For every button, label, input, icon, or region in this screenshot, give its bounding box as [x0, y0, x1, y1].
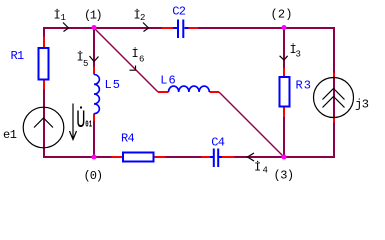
node 2 junction dot [282, 25, 287, 30]
voltage arrow U01 [70, 104, 77, 140]
wire C2 right lead [189, 27, 199, 29]
wire bottom bus left [43, 156, 112, 158]
current arrow I4 head [248, 153, 255, 161]
svg-text:5: 5 [83, 59, 88, 69]
label I2 [134, 8, 146, 23]
svg-text:(3): (3) [274, 169, 294, 183]
wire R3 bottom lead [283, 107, 285, 118]
source e1 circle [23, 107, 64, 148]
svg-text:(2): (2) [271, 8, 293, 22]
wire R3 top lead [283, 68, 285, 77]
inductor L6 [169, 86, 210, 92]
svg-text:(1): (1) [84, 9, 101, 23]
svg-text:İ: İ [132, 46, 138, 61]
svg-text:01: 01 [85, 118, 92, 129]
inductor L5 [94, 75, 99, 114]
label I1 [54, 8, 66, 23]
wire R1 top lead [43, 37, 45, 49]
wire top bus right of C2 [198, 27, 335, 29]
svg-text:e1: e1 [3, 128, 17, 142]
resistor R4 [123, 153, 154, 162]
svg-text:6: 6 [139, 55, 144, 65]
label I3 [290, 42, 301, 60]
node 3 junction dot [282, 155, 287, 160]
current arrow I3 head [280, 56, 288, 60]
wire C4 right lead [222, 156, 235, 158]
svg-text:R4: R4 [121, 132, 134, 146]
svg-text:İ: İ [134, 8, 140, 23]
svg-text:L6: L6 [160, 74, 176, 88]
capacitor C2 [173, 20, 189, 39]
svg-text:C2: C2 [172, 4, 185, 18]
label I5 [77, 50, 89, 70]
wire diagonal node1 to L6 [94, 28, 158, 92]
wire bottom bus right [235, 156, 336, 158]
wire j3 bottom lead [333, 118, 335, 123]
svg-text:j3: j3 [355, 98, 369, 112]
svg-text:2: 2 [140, 13, 145, 23]
wire right branch upper [333, 27, 335, 73]
svg-text:İ: İ [254, 160, 260, 175]
svg-text:U: U [76, 106, 85, 135]
wire L6 left lead [158, 91, 169, 93]
wire C2 left lead [162, 27, 173, 29]
wire L5 branch lower [93, 121, 95, 157]
wire R1 bottom lead [43, 80, 45, 90]
svg-text:1: 1 [61, 13, 66, 23]
label I6 [132, 46, 145, 65]
wire right branch lower [333, 123, 335, 159]
label I4 [254, 160, 268, 176]
wire top bus (1)-(2) [43, 27, 162, 29]
wire left branch upper [43, 27, 45, 37]
svg-text:İ: İ [77, 50, 83, 65]
svg-text:R3: R3 [296, 79, 312, 93]
resistor R1 [39, 48, 49, 80]
svg-text:(0): (0) [84, 169, 103, 183]
wire R4 right lead [154, 156, 166, 158]
wire bottom bus middle [166, 156, 202, 158]
wire j3 top lead [333, 73, 335, 78]
svg-text:İ: İ [54, 8, 60, 23]
wire C4 left lead [202, 156, 211, 158]
svg-text:L5: L5 [105, 78, 121, 92]
wire L5 bottom lead [93, 114, 95, 122]
svg-text:4: 4 [263, 166, 268, 176]
current arrow I6 head [130, 66, 136, 71]
wire L5 top lead [93, 67, 95, 75]
svg-text:C4: C4 [211, 135, 224, 149]
node 0 junction dot [92, 155, 97, 160]
source j3 double chevron [323, 89, 345, 108]
wire R3 branch upper [283, 28, 285, 68]
source e1 arrow [34, 118, 53, 128]
source j3 circle [314, 78, 354, 118]
current arrow I5 head [90, 56, 99, 62]
wire diagonal L6 to node3 [219, 92, 284, 157]
wire R4 left lead [112, 156, 124, 158]
svg-text:R1: R1 [11, 49, 24, 63]
capacitor C4 [210, 149, 222, 168]
svg-text:3: 3 [296, 50, 301, 60]
wire L6 right lead [209, 91, 219, 93]
wire R3 branch lower [283, 117, 285, 157]
wire L5 branch upper [93, 28, 95, 67]
label U01 [76, 106, 92, 135]
wire right branch through j3 [333, 78, 335, 118]
wire left branch through e1 [43, 90, 45, 159]
node 1 junction dot [92, 25, 97, 30]
current arrow I2 head [143, 23, 149, 32]
resistor R3 [280, 77, 290, 107]
current arrow I1 head [63, 23, 69, 32]
